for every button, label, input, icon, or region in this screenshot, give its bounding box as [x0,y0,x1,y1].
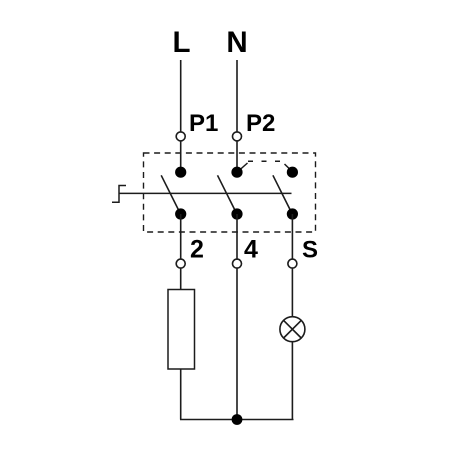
svg-text:L: L [172,26,190,59]
switch pole 3 blade [273,175,292,213]
switch enclosure dashed box [144,153,316,232]
signal lamp [280,317,305,342]
svg-text:4: 4 [244,235,258,263]
svg-text:N: N [226,26,247,59]
svg-text:S: S [302,236,318,263]
switch pole 2 bottom contact [231,208,242,219]
switch pole 1 blade [161,175,180,213]
terminal S [288,259,297,268]
switch pole 2 blade [218,175,237,213]
wire pole 1 to terminal 2 [180,214,182,259]
wire pole 2 to terminal 4 [236,214,238,259]
wire L to P1 [180,60,182,132]
svg-text:P2: P2 [246,110,275,137]
terminal 2 [176,259,185,268]
switch pole 3 top contact [287,167,298,178]
switch pole 2 top contact [231,167,242,178]
svg-text:2: 2 [190,235,204,263]
actuator link line [119,192,292,194]
wire heater to bottom node [180,369,182,420]
mechanical link to lamp contact (dashed) [239,163,248,171]
terminal 4 [233,259,242,268]
wire lamp to bottom node [291,342,293,420]
wire P2 to switch pole 2 [236,141,238,172]
wire pole 3 to terminal S [291,214,293,259]
switch pole 1 bottom contact [175,208,186,219]
svg-text:P1: P1 [189,110,218,137]
manual actuator bracket [112,186,126,203]
wire N to P2 [236,60,238,132]
bottom wire [180,419,294,421]
terminal P1 [176,132,185,141]
wire terminal 4 to bottom node [236,268,238,420]
wire P1 to switch pole 1 [180,141,182,172]
switch pole 3 bottom contact [287,208,298,219]
wire terminal S to lamp [291,268,293,317]
junction node [232,414,243,425]
switch pole 1 top contact [175,167,186,178]
wire terminal 2 to heater [180,268,182,290]
heater element R1 [168,290,195,370]
terminal P2 [233,132,242,141]
